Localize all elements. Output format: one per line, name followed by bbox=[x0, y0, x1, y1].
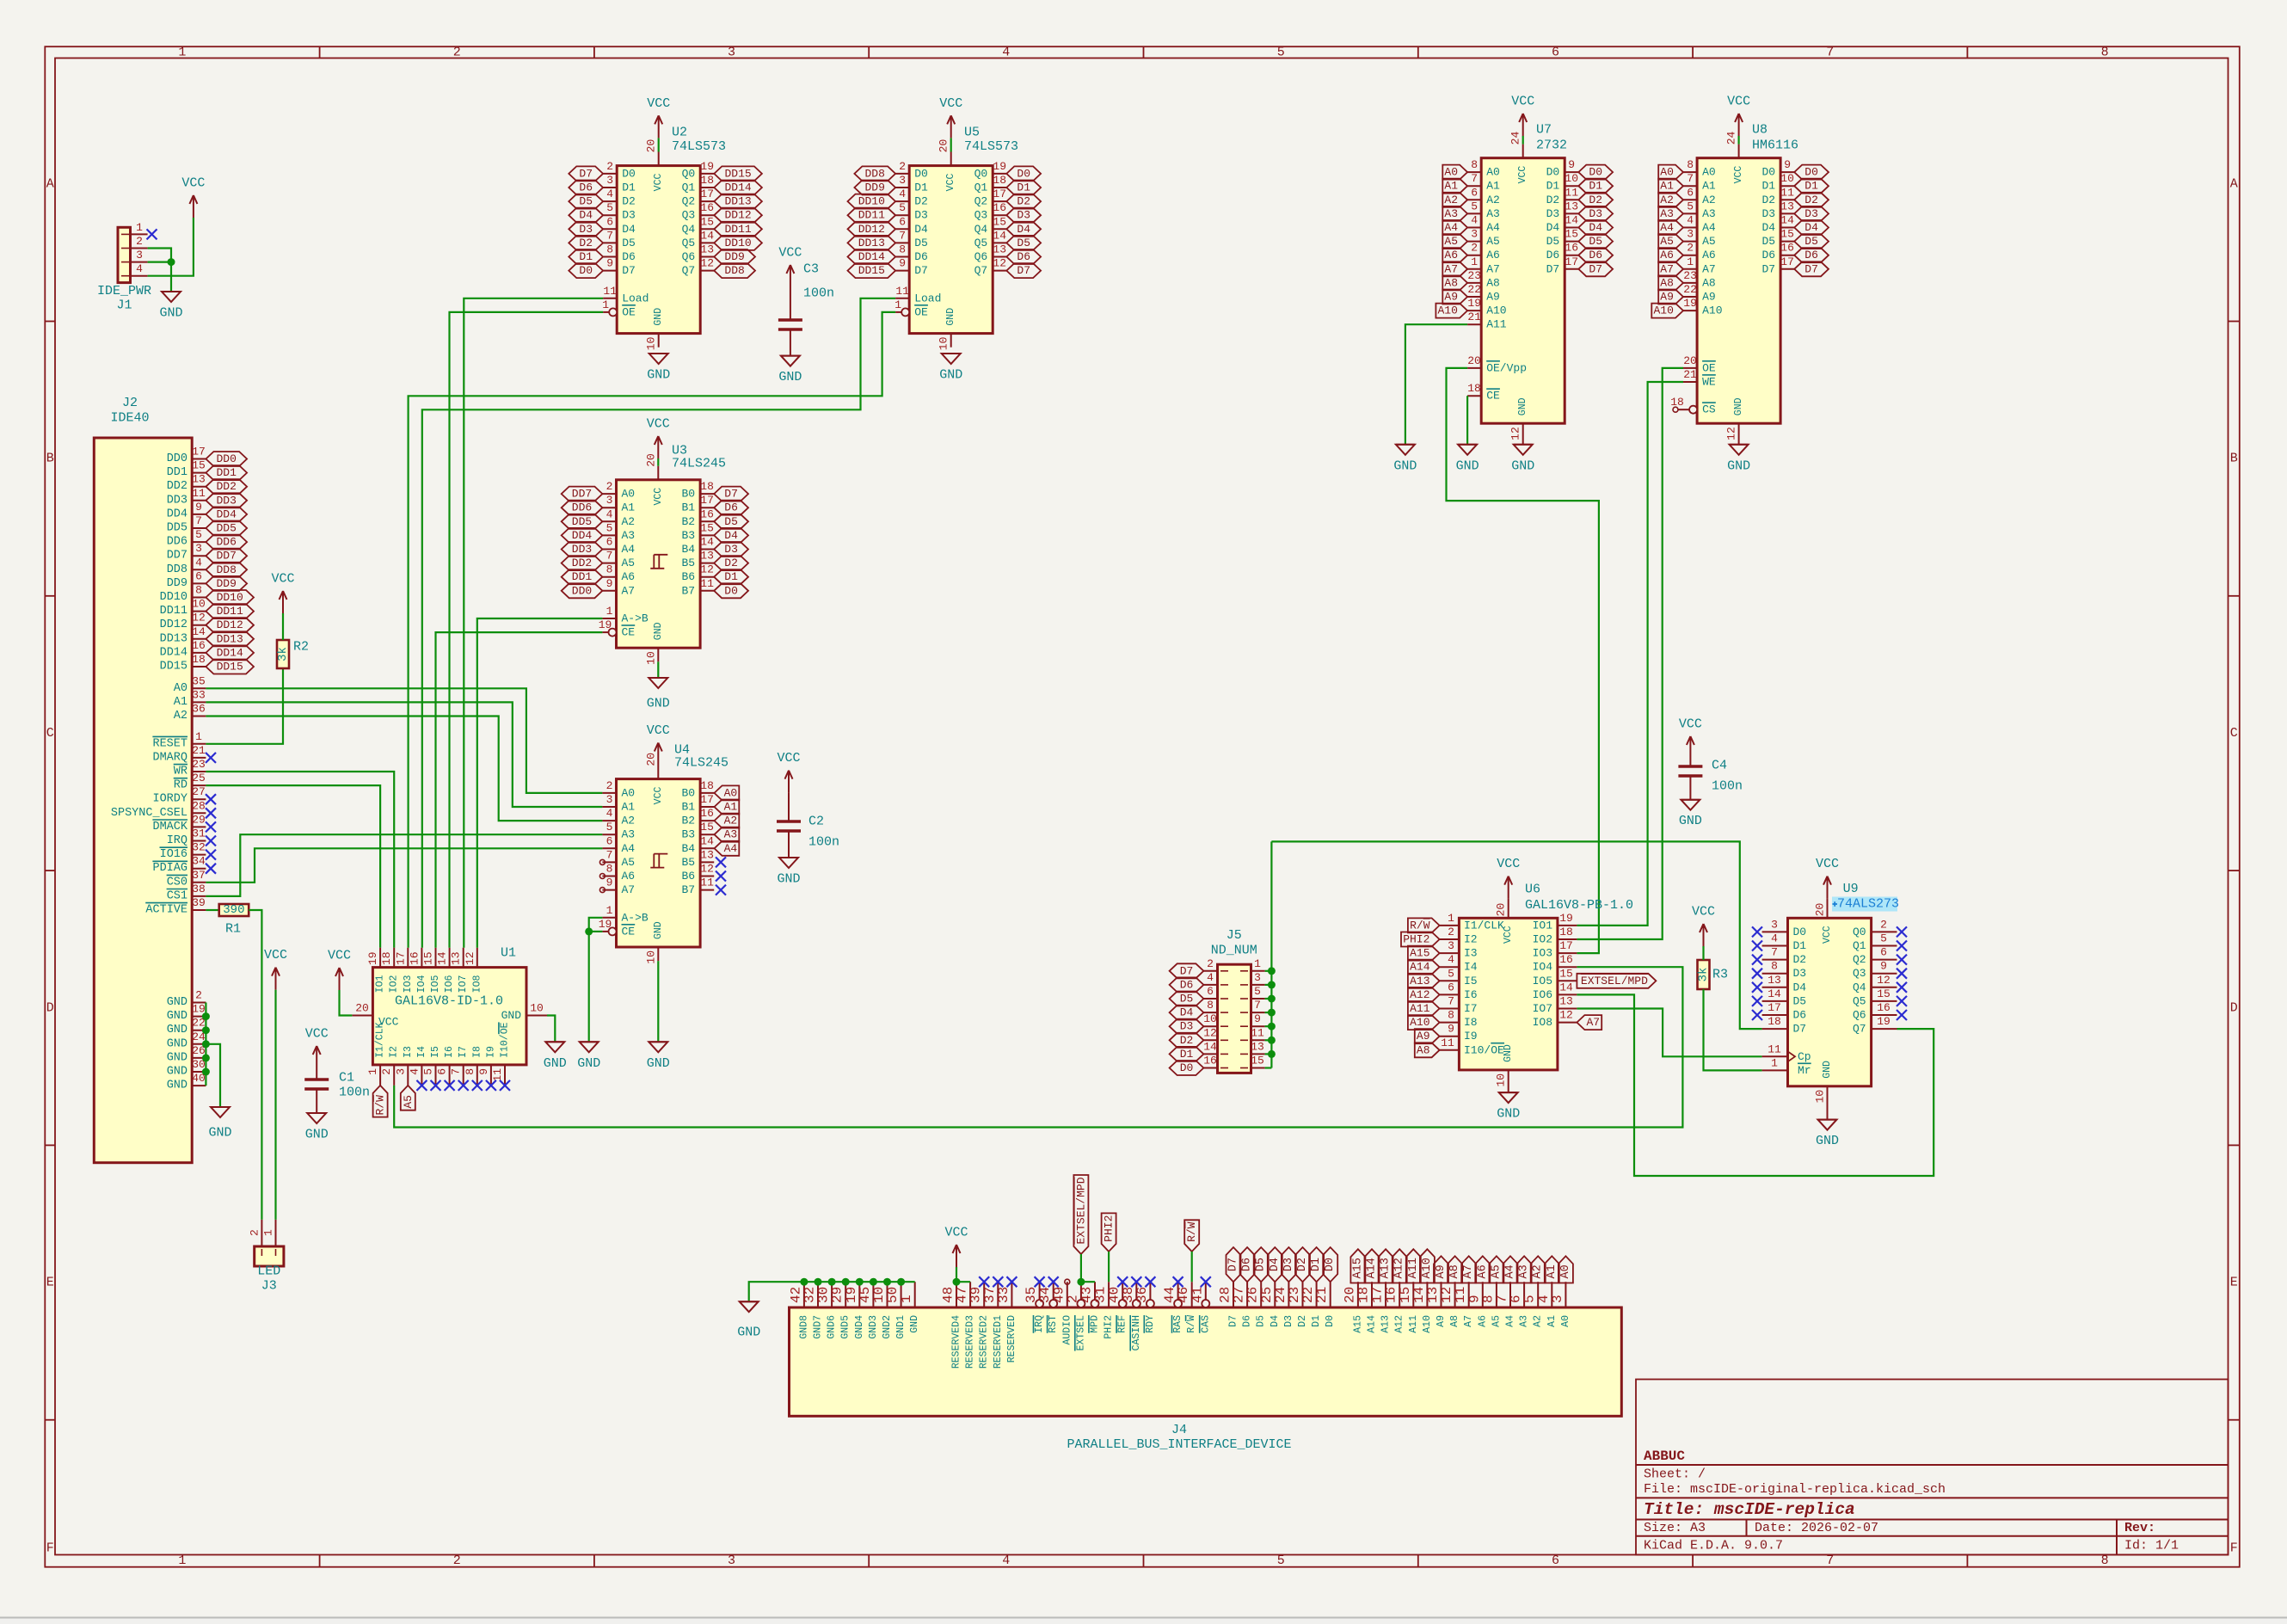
svg-text:19: 19 bbox=[599, 918, 612, 931]
svg-text:36: 36 bbox=[192, 703, 206, 716]
svg-text:B0: B0 bbox=[681, 488, 695, 501]
svg-text:Q6: Q6 bbox=[682, 250, 696, 263]
svg-text:15: 15 bbox=[422, 951, 435, 965]
svg-text:A2: A2 bbox=[1533, 1315, 1544, 1327]
wire EXTSEL/MPD to J4 pins 2 and 43 bbox=[1077, 1254, 1095, 1286]
svg-text:DD15: DD15 bbox=[217, 661, 243, 674]
svg-text:DD12: DD12 bbox=[217, 618, 243, 631]
svg-text:E: E bbox=[2230, 1276, 2238, 1290]
svg-text:IDE40: IDE40 bbox=[110, 411, 149, 426]
svg-text:VCC: VCC bbox=[328, 949, 351, 963]
svg-text:D7: D7 bbox=[1180, 964, 1194, 977]
svg-text:36: 36 bbox=[1134, 1287, 1150, 1303]
svg-text:GND: GND bbox=[653, 308, 664, 326]
IC U9 74ALS273 bbox=[1762, 882, 1897, 1120]
power VCC at U7 bbox=[1511, 95, 1534, 137]
svg-text:B1: B1 bbox=[681, 801, 695, 814]
svg-text:Load: Load bbox=[914, 292, 941, 304]
svg-text:2: 2 bbox=[248, 1229, 261, 1236]
svg-text:4: 4 bbox=[1687, 214, 1694, 227]
ground GND at C2 bbox=[777, 858, 800, 887]
svg-text:8: 8 bbox=[1471, 158, 1478, 171]
svg-text:C1: C1 bbox=[339, 1071, 354, 1086]
ground GND at U9 bbox=[1816, 1120, 1839, 1149]
svg-text:A8: A8 bbox=[1449, 1315, 1460, 1327]
svg-text:19: 19 bbox=[1683, 297, 1697, 310]
svg-text:A4: A4 bbox=[1504, 1264, 1517, 1278]
svg-text:5: 5 bbox=[606, 201, 613, 214]
svg-text:VCC: VCC bbox=[777, 751, 800, 766]
svg-text:D1: D1 bbox=[1761, 180, 1775, 193]
svg-text:16: 16 bbox=[700, 201, 714, 214]
svg-text:A0: A0 bbox=[622, 488, 636, 501]
svg-text:A1: A1 bbox=[1444, 180, 1458, 193]
svg-text:10: 10 bbox=[1495, 1073, 1508, 1087]
svg-text:11: 11 bbox=[895, 285, 909, 298]
svg-text:41: 41 bbox=[1190, 1287, 1205, 1303]
svg-text:DD3: DD3 bbox=[167, 494, 188, 507]
svg-text:GND: GND bbox=[945, 308, 956, 326]
svg-text:19: 19 bbox=[993, 160, 1006, 173]
svg-text:C: C bbox=[2230, 726, 2238, 741]
svg-text:32: 32 bbox=[192, 841, 206, 854]
svg-text:PARALLEL_BUS_INTERFACE_DEVICE: PARALLEL_BUS_INTERFACE_DEVICE bbox=[1067, 1437, 1291, 1452]
svg-text:17: 17 bbox=[700, 494, 714, 507]
power VCC at U3 bbox=[647, 417, 670, 459]
svg-text:Id: 1/1: Id: 1/1 bbox=[2124, 1539, 2179, 1553]
svg-text:D4: D4 bbox=[914, 223, 928, 236]
svg-text:13: 13 bbox=[1565, 200, 1578, 212]
svg-text:D6: D6 bbox=[1242, 1315, 1253, 1327]
svg-text:DD4: DD4 bbox=[167, 507, 188, 520]
svg-text:4: 4 bbox=[606, 807, 613, 820]
svg-text:Q2: Q2 bbox=[1853, 953, 1866, 966]
svg-text:2: 2 bbox=[1880, 918, 1887, 931]
svg-text:DD13: DD13 bbox=[858, 237, 885, 249]
svg-text:11: 11 bbox=[603, 285, 617, 298]
svg-text:D1: D1 bbox=[1310, 1258, 1323, 1271]
svg-text:D1: D1 bbox=[724, 570, 738, 583]
svg-text:GND: GND bbox=[1393, 458, 1417, 473]
svg-text:A0: A0 bbox=[1559, 1264, 1572, 1278]
svg-text:ABBUC: ABBUC bbox=[1644, 1449, 1685, 1464]
svg-text:11: 11 bbox=[700, 877, 714, 889]
svg-text:DD11: DD11 bbox=[858, 209, 885, 222]
svg-text:16: 16 bbox=[192, 639, 206, 652]
svg-text:74LS245: 74LS245 bbox=[672, 457, 726, 471]
svg-text:C: C bbox=[46, 726, 54, 741]
svg-text:VCC: VCC bbox=[1727, 95, 1750, 109]
svg-text:GND: GND bbox=[909, 1315, 920, 1333]
svg-text:2: 2 bbox=[1448, 926, 1454, 938]
svg-text:29: 29 bbox=[192, 813, 206, 826]
svg-text:16: 16 bbox=[1877, 1001, 1890, 1014]
svg-text:20: 20 bbox=[644, 753, 657, 766]
svg-text:OE/Vpp: OE/Vpp bbox=[1486, 361, 1527, 374]
svg-text:B: B bbox=[46, 452, 54, 466]
highlighted value 74ALS273 at U9 bbox=[1832, 897, 1899, 912]
svg-text:D0: D0 bbox=[1546, 166, 1560, 179]
svg-text:7: 7 bbox=[1826, 1553, 1834, 1568]
svg-text:3: 3 bbox=[136, 249, 143, 261]
svg-text:D4: D4 bbox=[724, 529, 738, 542]
svg-text:VCC: VCC bbox=[378, 1016, 399, 1029]
svg-text:SPSYNC_CSEL: SPSYNC_CSEL bbox=[111, 807, 188, 820]
svg-text:390: 390 bbox=[223, 903, 244, 917]
svg-text:8: 8 bbox=[464, 1068, 476, 1075]
svg-text:AUDIO: AUDIO bbox=[1061, 1315, 1073, 1345]
svg-text:VCC: VCC bbox=[271, 572, 294, 587]
svg-text:DD8: DD8 bbox=[216, 563, 236, 576]
dangling ends U4 A5-A7 bbox=[599, 859, 605, 892]
power VCC at J4 bbox=[944, 1226, 968, 1268]
svg-text:VCC: VCC bbox=[647, 417, 670, 432]
svg-text:B7: B7 bbox=[681, 883, 695, 896]
svg-text:DD15: DD15 bbox=[724, 167, 751, 180]
svg-text:17: 17 bbox=[1565, 255, 1578, 268]
svg-text:2: 2 bbox=[1687, 242, 1694, 255]
wire U7 A11 to GND bbox=[1405, 324, 1467, 445]
svg-text:RDY: RDY bbox=[1145, 1315, 1156, 1333]
connector J1 IDE_PWR bbox=[97, 221, 151, 313]
svg-text:I6: I6 bbox=[444, 1046, 455, 1058]
svg-text:IO3: IO3 bbox=[403, 975, 414, 993]
svg-text:6: 6 bbox=[436, 1068, 449, 1075]
svg-text:DD9: DD9 bbox=[724, 250, 744, 263]
svg-text:11: 11 bbox=[1768, 1043, 1781, 1055]
svg-text:100n: 100n bbox=[808, 835, 839, 850]
svg-text:Q4: Q4 bbox=[974, 223, 988, 236]
svg-text:GND: GND bbox=[1517, 397, 1528, 415]
svg-text:GND: GND bbox=[1822, 1061, 1833, 1079]
svg-text:D0: D0 bbox=[914, 167, 928, 180]
svg-text:3: 3 bbox=[195, 542, 202, 555]
svg-text:Q1: Q1 bbox=[682, 181, 696, 194]
svg-text:4: 4 bbox=[1771, 932, 1778, 945]
svg-text:C2: C2 bbox=[808, 815, 824, 829]
svg-text:74LS245: 74LS245 bbox=[674, 756, 729, 771]
wire R/W to J4 pin 46 bbox=[1191, 1252, 1193, 1282]
svg-text:20: 20 bbox=[1495, 903, 1508, 917]
svg-text:3: 3 bbox=[1448, 939, 1454, 952]
svg-text:4: 4 bbox=[1207, 971, 1214, 984]
svg-text:A1: A1 bbox=[1702, 180, 1716, 193]
svg-text:I3: I3 bbox=[1464, 947, 1478, 960]
svg-text:VCC: VCC bbox=[1679, 717, 1702, 732]
resistor R3 3k bbox=[1697, 960, 1729, 989]
svg-text:I2: I2 bbox=[1464, 933, 1478, 946]
svg-text:3k: 3k bbox=[276, 647, 290, 661]
svg-text:IO2: IO2 bbox=[1533, 933, 1552, 946]
wire R1 to J3 pin 2 bbox=[249, 910, 261, 1220]
svg-text:OE: OE bbox=[1702, 361, 1716, 374]
svg-text:18: 18 bbox=[993, 174, 1006, 187]
svg-text:A14: A14 bbox=[1367, 1315, 1378, 1333]
svg-text:I3: I3 bbox=[403, 1046, 414, 1058]
svg-text:A8: A8 bbox=[1448, 1264, 1461, 1278]
svg-text:D6: D6 bbox=[1241, 1258, 1254, 1271]
svg-text:D1: D1 bbox=[579, 250, 593, 263]
svg-text:D3: D3 bbox=[1761, 207, 1775, 220]
svg-text:6: 6 bbox=[606, 215, 613, 228]
wire U6 IO7 to U9 Cp bbox=[1577, 1009, 1761, 1057]
no-connects U9 D0-D6 and Q0-Q6 bbox=[1752, 926, 1907, 1020]
svg-text:A8: A8 bbox=[1486, 276, 1500, 289]
svg-text:D6: D6 bbox=[622, 250, 636, 263]
svg-text:I6: I6 bbox=[1464, 988, 1478, 1001]
svg-text:DD7: DD7 bbox=[572, 488, 592, 501]
svg-text:13: 13 bbox=[700, 243, 714, 256]
svg-text:RAS: RAS bbox=[1172, 1315, 1183, 1333]
svg-text:D6: D6 bbox=[1017, 250, 1030, 263]
power VCC at U4 bbox=[647, 723, 670, 766]
svg-text:A12: A12 bbox=[1394, 1315, 1405, 1333]
svg-text:GND: GND bbox=[1456, 458, 1479, 473]
svg-text:20: 20 bbox=[1683, 354, 1697, 367]
svg-text:A7: A7 bbox=[622, 883, 636, 896]
svg-text:A7: A7 bbox=[1462, 1264, 1475, 1278]
svg-text:7: 7 bbox=[1254, 999, 1261, 1012]
wire PHI2 to J4 pin 31 bbox=[1108, 1252, 1110, 1282]
svg-text:MPD: MPD bbox=[1090, 1315, 1101, 1333]
svg-text:8: 8 bbox=[1771, 960, 1778, 973]
svg-text:A9: A9 bbox=[1702, 291, 1716, 304]
wire U3 CE to U1 IO5 bbox=[436, 632, 603, 948]
power VCC at J1 bbox=[181, 176, 205, 218]
svg-text:File: mscIDE-original-replica.: File: mscIDE-original-replica.kicad_sch bbox=[1644, 1482, 1946, 1497]
svg-text:100n: 100n bbox=[1712, 779, 1743, 794]
svg-text:GND: GND bbox=[1816, 1134, 1839, 1148]
svg-text:3: 3 bbox=[1254, 971, 1261, 984]
svg-text:25: 25 bbox=[192, 772, 206, 784]
svg-text:11: 11 bbox=[1780, 186, 1794, 199]
svg-text:VCC: VCC bbox=[653, 174, 664, 192]
svg-text:DD2: DD2 bbox=[572, 557, 592, 569]
svg-text:U6: U6 bbox=[1525, 883, 1540, 897]
svg-text:Q5: Q5 bbox=[1853, 994, 1866, 1007]
svg-text:12: 12 bbox=[700, 863, 714, 876]
svg-text:A: A bbox=[2230, 176, 2238, 191]
svg-text:A0: A0 bbox=[622, 786, 636, 799]
svg-text:5: 5 bbox=[606, 821, 613, 834]
svg-text:Q0: Q0 bbox=[974, 167, 988, 180]
svg-text:GND: GND bbox=[939, 368, 962, 383]
svg-text:B6: B6 bbox=[681, 570, 695, 583]
svg-text:100n: 100n bbox=[803, 286, 834, 301]
wire VCC to J4 RESERVED4/RESERVED3 bbox=[953, 1267, 971, 1286]
svg-text:11: 11 bbox=[192, 487, 206, 500]
svg-text:GND1: GND1 bbox=[895, 1315, 907, 1339]
svg-text:CE: CE bbox=[622, 925, 636, 938]
svg-text:CE: CE bbox=[622, 626, 636, 639]
net labels D7-D0 at U2 inputs bbox=[569, 166, 603, 278]
svg-text:DD15: DD15 bbox=[160, 661, 188, 674]
svg-text:B2: B2 bbox=[681, 515, 695, 528]
svg-text:1: 1 bbox=[178, 1553, 186, 1568]
ground GND at U7 bbox=[1511, 445, 1534, 474]
svg-text:D7: D7 bbox=[1804, 262, 1818, 275]
svg-text:17: 17 bbox=[192, 446, 206, 458]
svg-text:A4: A4 bbox=[1702, 221, 1716, 234]
svg-text:10: 10 bbox=[1780, 172, 1794, 185]
svg-text:21: 21 bbox=[1314, 1287, 1330, 1303]
svg-text:Load: Load bbox=[622, 292, 649, 304]
svg-text:6: 6 bbox=[1207, 985, 1214, 998]
svg-text:DD14: DD14 bbox=[858, 250, 885, 263]
svg-text:DD4: DD4 bbox=[216, 507, 237, 520]
svg-text:D6: D6 bbox=[579, 181, 593, 194]
svg-text:GND: GND bbox=[1503, 1044, 1514, 1062]
svg-text:Q2: Q2 bbox=[682, 195, 696, 208]
svg-text:VCC: VCC bbox=[181, 176, 205, 191]
svg-text:A9: A9 bbox=[1660, 291, 1674, 304]
capacitor C4 100n bbox=[1678, 759, 1743, 800]
svg-text:33: 33 bbox=[996, 1287, 1011, 1303]
svg-text:GND: GND bbox=[167, 1066, 188, 1079]
svg-text:A6: A6 bbox=[1702, 249, 1716, 261]
svg-text:7: 7 bbox=[1448, 995, 1454, 1008]
wire CS1 from J2 to U4 A3 bbox=[206, 834, 602, 896]
svg-text:D4: D4 bbox=[1761, 221, 1775, 234]
svg-text:GND: GND bbox=[653, 921, 664, 939]
svg-text:A0: A0 bbox=[1560, 1315, 1571, 1327]
IC U4 74LS245 bbox=[599, 743, 729, 964]
svg-text:6: 6 bbox=[1880, 946, 1887, 959]
svg-text:DD11: DD11 bbox=[724, 223, 751, 236]
svg-text:D3: D3 bbox=[1589, 207, 1602, 220]
svg-text:GND8: GND8 bbox=[798, 1315, 809, 1339]
svg-text:F: F bbox=[46, 1541, 54, 1556]
svg-text:Q5: Q5 bbox=[682, 237, 696, 249]
svg-text:DD9: DD9 bbox=[216, 577, 236, 590]
wire U1 I2 to U6 IO4 bbox=[394, 967, 1682, 1127]
svg-text:2: 2 bbox=[606, 480, 613, 493]
svg-text:15: 15 bbox=[700, 215, 714, 228]
svg-text:3: 3 bbox=[899, 174, 906, 187]
svg-text:2: 2 bbox=[453, 45, 461, 59]
capacitor C1 100n bbox=[304, 1068, 370, 1113]
svg-text:I2: I2 bbox=[389, 1046, 400, 1058]
svg-text:4: 4 bbox=[1002, 1553, 1010, 1568]
svg-text:2: 2 bbox=[136, 235, 143, 248]
wire J1 pin2/pin3 to GND bbox=[148, 249, 175, 292]
svg-text:C4: C4 bbox=[1712, 759, 1727, 773]
svg-text:10: 10 bbox=[1814, 1090, 1827, 1104]
svg-text:14: 14 bbox=[436, 951, 449, 965]
svg-text:1: 1 bbox=[136, 221, 143, 234]
svg-text:IO16: IO16 bbox=[160, 848, 188, 861]
svg-text:VCC: VCC bbox=[778, 246, 802, 261]
svg-text:IO1: IO1 bbox=[375, 975, 386, 993]
svg-text:D2: D2 bbox=[622, 195, 636, 208]
wire U3 VCC bbox=[657, 458, 659, 466]
svg-text:19: 19 bbox=[1559, 912, 1573, 925]
svg-text:9: 9 bbox=[195, 501, 202, 514]
svg-text:18: 18 bbox=[1768, 1015, 1781, 1028]
svg-text:GND: GND bbox=[778, 370, 802, 384]
svg-text:A1: A1 bbox=[622, 501, 636, 514]
svg-text:D0: D0 bbox=[1761, 166, 1775, 179]
svg-text:22: 22 bbox=[1467, 283, 1481, 296]
svg-text:12: 12 bbox=[1203, 1026, 1217, 1039]
svg-text:GND: GND bbox=[647, 697, 670, 711]
net labels A0-A10 at U7 bbox=[1436, 165, 1467, 318]
svg-text:13: 13 bbox=[1559, 995, 1573, 1008]
svg-text:D0: D0 bbox=[1793, 926, 1807, 938]
svg-text:DD4: DD4 bbox=[572, 529, 593, 542]
svg-text:A4: A4 bbox=[1486, 221, 1500, 234]
svg-text:REF: REF bbox=[1117, 1315, 1128, 1333]
wire U1 GND pin 10 bbox=[547, 1016, 555, 1043]
svg-text:DD12: DD12 bbox=[160, 618, 188, 631]
svg-text:Q6: Q6 bbox=[1853, 1009, 1866, 1022]
power VCC at C3 bbox=[778, 246, 802, 288]
svg-text:RESET: RESET bbox=[152, 737, 188, 750]
svg-text:A->B: A->B bbox=[622, 612, 649, 625]
wire J4 GND pins bus to ground bbox=[749, 1278, 915, 1302]
svg-text:21: 21 bbox=[192, 744, 206, 757]
svg-text:D2: D2 bbox=[1546, 194, 1560, 206]
svg-text:B4: B4 bbox=[681, 543, 695, 556]
svg-text:CASINH: CASINH bbox=[1131, 1315, 1142, 1350]
svg-text:A1: A1 bbox=[724, 801, 738, 814]
svg-text:6: 6 bbox=[1552, 1553, 1559, 1568]
svg-text:20: 20 bbox=[644, 453, 657, 467]
svg-text:Q5: Q5 bbox=[974, 237, 988, 249]
net labels DD8-DD15 at U5 inputs bbox=[848, 166, 896, 278]
svg-text:A2: A2 bbox=[174, 710, 188, 723]
IC U2 74LS573 bbox=[602, 126, 726, 351]
svg-text:A9: A9 bbox=[1417, 1030, 1430, 1043]
svg-text:R/W: R/W bbox=[1185, 1221, 1198, 1242]
ground GND at C3 bbox=[778, 356, 802, 385]
svg-text:16: 16 bbox=[700, 507, 714, 520]
svg-text:15: 15 bbox=[700, 821, 714, 834]
svg-text:20: 20 bbox=[355, 1002, 369, 1015]
svg-text:3: 3 bbox=[606, 174, 613, 187]
svg-text:5: 5 bbox=[195, 528, 202, 541]
svg-text:A6: A6 bbox=[1476, 1264, 1489, 1278]
wire U5 OE to U1 IO3 bbox=[409, 312, 896, 948]
svg-text:ACTIVE: ACTIVE bbox=[145, 904, 188, 917]
svg-text:Sheet: /: Sheet: / bbox=[1644, 1467, 1706, 1482]
svg-text:10: 10 bbox=[1203, 1012, 1217, 1025]
svg-text:A10: A10 bbox=[1437, 304, 1457, 317]
power VCC at U5 bbox=[939, 96, 962, 138]
svg-text:12: 12 bbox=[700, 257, 714, 270]
label R/W at J4 bbox=[1184, 1220, 1199, 1252]
svg-text:RESERVED4: RESERVED4 bbox=[951, 1315, 962, 1369]
svg-text:VCC: VCC bbox=[1517, 166, 1528, 184]
IC U6 GAL16V8-PB-1.0 bbox=[1440, 883, 1633, 1093]
svg-text:Q3: Q3 bbox=[974, 209, 988, 222]
svg-text:D5: D5 bbox=[724, 515, 738, 528]
net labels D7-D0 at J4 bbox=[1226, 1247, 1338, 1282]
svg-text:18: 18 bbox=[1559, 926, 1573, 938]
svg-text:12: 12 bbox=[1725, 427, 1738, 440]
svg-text:11: 11 bbox=[491, 1068, 504, 1082]
svg-text:7: 7 bbox=[1826, 45, 1834, 59]
svg-text:4: 4 bbox=[1448, 953, 1454, 966]
connector J4 PARALLEL_BUS_INTERFACE_DEVICE bbox=[788, 1282, 1621, 1452]
svg-text:3: 3 bbox=[1771, 918, 1778, 931]
net labels A15-A0 at J4 bbox=[1350, 1249, 1573, 1283]
svg-text:17: 17 bbox=[700, 793, 714, 806]
svg-text:1: 1 bbox=[899, 1295, 914, 1303]
svg-text:D5: D5 bbox=[1017, 237, 1030, 249]
svg-text:12: 12 bbox=[1509, 427, 1522, 440]
wire A2 from J2 to U4 bbox=[206, 717, 602, 821]
